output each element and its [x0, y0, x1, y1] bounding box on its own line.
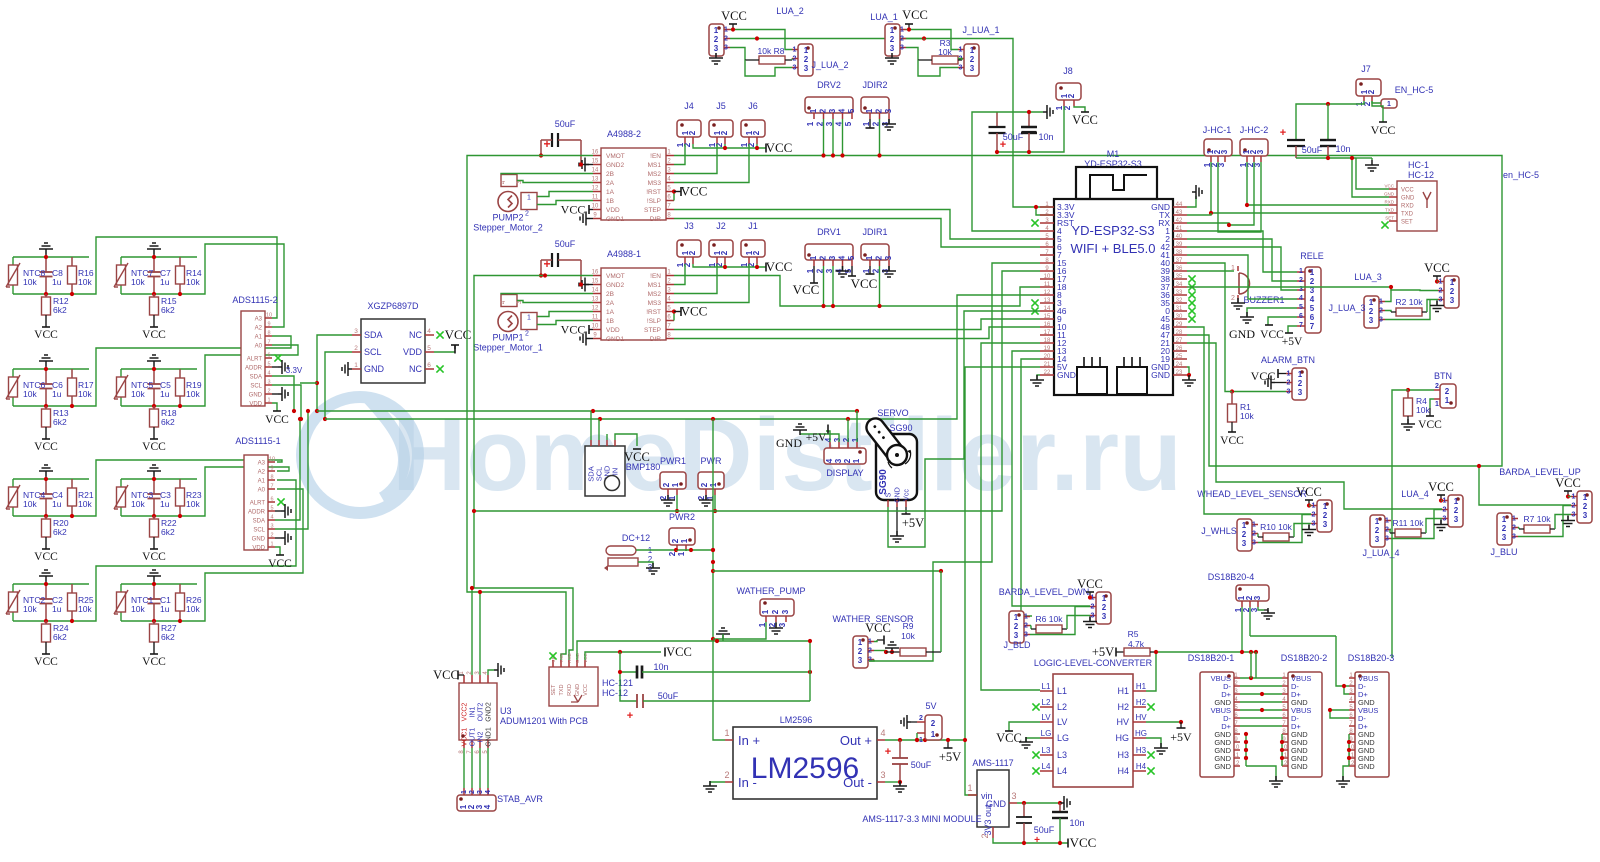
- svg-text:VDD: VDD: [606, 327, 620, 334]
- ground at GND1 of driver PUMP2: [580, 212, 590, 226]
- wire J_WHLS pin2 to R10: [1257, 533, 1259, 535]
- svg-text:6: 6: [267, 353, 270, 359]
- svg-text:!RST: !RST: [646, 189, 661, 196]
- svg-text:GND1: GND1: [486, 727, 493, 747]
- svg-text:3.3V: 3.3V: [286, 366, 303, 375]
- VCC below NTC3: [153, 537, 155, 549]
- svg-text:J_BLD: J_BLD: [1003, 640, 1031, 650]
- svg-text:BARDA_LEVEL_DWN: BARDA_LEVEL_DWN: [999, 587, 1090, 597]
- svg-text:15: 15: [1044, 314, 1051, 320]
- svg-text:J-HC-1: J-HC-1: [1203, 125, 1232, 135]
- ground at LUA_3: [1430, 301, 1444, 312]
- wire NTC4 to ADS1115-1 A3: [89, 460, 282, 516]
- svg-text:VDD: VDD: [403, 347, 423, 357]
- svg-text:1: 1: [267, 398, 270, 404]
- wire A4988-1 STEP to ESP32: [674, 319, 1040, 330]
- ESP32 bottom connector A: [1077, 367, 1107, 394]
- svg-text:50uF: 50uF: [555, 239, 576, 249]
- wire A4988-2 EN long rail: [674, 156, 1502, 467]
- svg-text:VCC: VCC: [34, 329, 58, 341]
- wire VMOT rail A4988-2 to HC-121 TXD: [467, 156, 593, 661]
- svg-text:RELE: RELE: [1300, 251, 1324, 261]
- ground WATHER_PUMP: [775, 622, 777, 628]
- wire R9 pullup riser: [940, 571, 942, 652]
- svg-text:VCC: VCC: [142, 441, 166, 453]
- svg-text:10k R8: 10k R8: [758, 46, 785, 56]
- svg-text:1: 1: [1385, 518, 1389, 525]
- svg-text:1: 1: [677, 551, 686, 556]
- svg-text:2: 2: [1367, 89, 1376, 94]
- ground at In-: [710, 782, 725, 786]
- svg-text:4: 4: [825, 458, 834, 463]
- connector of PUMP2: [521, 193, 537, 210]
- svg-text:1: 1: [919, 737, 923, 744]
- svg-text:GND2: GND2: [606, 162, 624, 169]
- pin H2 of LLC: [1133, 706, 1146, 708]
- svg-text:3: 3: [828, 108, 837, 113]
- svg-text:1: 1: [724, 728, 729, 738]
- svg-text:ALRT: ALRT: [247, 357, 263, 363]
- svg-text:3: 3: [1011, 791, 1016, 801]
- wire XGZP SCL to I2C bus: [325, 352, 352, 419]
- wire DS3 pin3: [1344, 686, 1349, 694]
- svg-text:2: 2: [1435, 383, 1439, 390]
- pin 4 SDA of ADS1115-1: [268, 519, 275, 521]
- wire NTC8 to ADS1115-2 A3: [89, 237, 277, 318]
- pin 10 17 of M1: [1040, 278, 1054, 280]
- svg-text:2: 2: [890, 35, 895, 44]
- svg-text:2: 2: [1102, 603, 1107, 612]
- pin 7 A0 of ADS1115-2: [265, 344, 272, 346]
- no-connect RST: [1031, 219, 1038, 226]
- svg-text:28: 28: [1176, 330, 1183, 336]
- resistor R14: [179, 257, 181, 266]
- wire caps bottom rail: [1296, 157, 1356, 159]
- svg-text:In -: In -: [738, 775, 757, 790]
- svg-text:HV: HV: [1135, 713, 1147, 722]
- wire J6 pin1 to MS3 A4988-2: [674, 144, 749, 183]
- svg-text:RXD: RXD: [567, 684, 573, 696]
- svg-text:SERVO: SERVO: [877, 408, 908, 418]
- no-connect pin 13: [1031, 299, 1038, 306]
- wire WHEAD feed: [1187, 327, 1311, 514]
- pin 4 NC of XGZP6897D: [425, 334, 434, 336]
- wire DQ bus upper: [1250, 635, 1336, 637]
- wire DS18B20-4 pin2 down: [1249, 607, 1251, 636]
- svg-text:3: 3: [1024, 632, 1028, 639]
- pin 16 10 of M1: [1040, 326, 1054, 328]
- pin 8 DIR of A4988-1: [666, 338, 674, 340]
- pin 1 !EN of A4988-1: [666, 275, 674, 277]
- svg-text:1: 1: [1439, 279, 1443, 286]
- connector STAB_AVR: [457, 795, 496, 811]
- svg-text:10n: 10n: [1335, 144, 1350, 154]
- wire XGZP SDA to I2C bus: [317, 335, 352, 411]
- svg-text:3: 3: [714, 44, 719, 53]
- wire DISPLAY pin4 to +5V: [826, 431, 830, 442]
- svg-text:1: 1: [1252, 522, 1256, 529]
- svg-text:NC: NC: [409, 364, 422, 374]
- svg-text:2: 2: [1014, 622, 1019, 631]
- svg-text:2: 2: [1454, 506, 1459, 515]
- wire I2C SCL bus: [325, 295, 1040, 419]
- pin 3 GND of AMS-1117: [1009, 802, 1017, 804]
- pin 6 6 of M1: [1040, 246, 1054, 248]
- pin TXD of HC-12: [1389, 212, 1397, 214]
- connector of PUMP1: [521, 313, 537, 330]
- pin 12 1A of A4988-2: [593, 191, 601, 193]
- svg-text:39: 39: [1176, 242, 1183, 248]
- svg-text:2: 2: [1385, 527, 1389, 534]
- svg-text:4: 4: [1310, 295, 1315, 304]
- svg-text:GND: GND: [1291, 762, 1308, 771]
- wire H1 to R5 node: [1146, 652, 1156, 691]
- capacitor 50uF HC area: [620, 672, 637, 701]
- svg-text:A0: A0: [255, 344, 263, 350]
- svg-text:L3: L3: [1042, 746, 1051, 755]
- svg-text:S: S: [886, 492, 893, 497]
- ground ESP32 right GND: [1187, 367, 1189, 380]
- svg-text:MS2: MS2: [648, 171, 662, 178]
- wire servo Vcc to +5V: [905, 507, 907, 514]
- svg-text:LV: LV: [1041, 713, 1051, 722]
- pin 3 SDA of XGZP6897D: [352, 334, 361, 336]
- wires DS18B20-1 to DS18B20-2 bus: [1240, 677, 1282, 679]
- svg-text:1: 1: [809, 255, 818, 260]
- svg-text:VCC: VCC: [1384, 184, 1394, 189]
- pin 2 In- of LM2596: [725, 781, 733, 783]
- ground above NTC7: [147, 243, 161, 254]
- svg-text:25: 25: [1176, 354, 1183, 360]
- resistor R19: [179, 369, 181, 378]
- svg-text:1: 1: [1445, 396, 1450, 405]
- svg-text:3: 3: [1369, 316, 1374, 325]
- ground DS18B20-4: [1258, 607, 1264, 610]
- svg-text:2: 2: [1024, 623, 1028, 630]
- svg-text:3: 3: [1583, 511, 1588, 520]
- svg-text:3: 3: [900, 45, 904, 52]
- pin 9 A2 of ADS1115-2: [265, 326, 272, 328]
- svg-text:2: 2: [868, 648, 872, 655]
- svg-text:DS18B20-1: DS18B20-1: [1188, 653, 1235, 663]
- pin L2 of LLC: [1040, 706, 1053, 708]
- wires DRV2 pins to EN rail: [823, 119, 825, 156]
- svg-text:32: 32: [1176, 298, 1183, 304]
- pin 6 ALRT of ADS1115-1: [268, 501, 275, 503]
- pin 9 GND1 of A4988-2: [593, 218, 601, 220]
- pin 7 A0 of ADS1115-1: [268, 488, 275, 490]
- ground at WHEAD_LEVEL_SENSOR: [1302, 525, 1316, 536]
- pin 24 GND of M1: [1173, 366, 1187, 368]
- svg-text:1: 1: [959, 47, 963, 54]
- svg-text:VCC: VCC: [561, 203, 586, 217]
- svg-text:14: 14: [592, 168, 599, 174]
- pin RXD of HC-12: [1389, 204, 1397, 206]
- no-connect ALRT ADS1115-2: [274, 354, 281, 361]
- svg-text:3: 3: [1220, 149, 1229, 154]
- svg-text:VCC: VCC: [142, 551, 166, 563]
- svg-text:2: 2: [793, 56, 797, 63]
- resistor R3: [932, 56, 958, 64]
- svg-text:3: 3: [1379, 317, 1383, 324]
- wire RELE pin3: [1187, 247, 1297, 290]
- wire cap bottom rail to J8 pin1: [997, 106, 1064, 152]
- svg-text:GND: GND: [1151, 370, 1170, 380]
- svg-text:TXD: TXD: [1401, 212, 1414, 218]
- wire VCC rail J3 J2 J1: [693, 264, 766, 267]
- ground under LUA_2: [709, 53, 723, 64]
- connector J_BLD: [1009, 611, 1024, 643]
- svg-text:VCC: VCC: [1072, 113, 1098, 127]
- pin 6 NC of XGZP6897D: [425, 368, 434, 370]
- ground above NTC4: [39, 465, 53, 476]
- svg-text:10: 10: [266, 313, 272, 319]
- ground at 5V pin2: [901, 715, 911, 729]
- svg-text:3: 3: [1375, 535, 1380, 544]
- svg-text:VCC: VCC: [1555, 476, 1581, 490]
- wire J_BLD pin3 row: [1030, 607, 1090, 635]
- ground ADDR ADS1115-1: [275, 510, 281, 512]
- pin 40 2 of M1: [1173, 238, 1187, 240]
- svg-text:HG: HG: [1116, 733, 1130, 743]
- svg-text:+: +: [543, 257, 550, 271]
- svg-text:2: 2: [1067, 93, 1076, 98]
- wire J_BLU pin2 to R7: [1518, 527, 1519, 529]
- svg-text:L2: L2: [1042, 698, 1051, 707]
- svg-text:R6 10k: R6 10k: [1036, 614, 1064, 624]
- svg-text:LUA_3: LUA_3: [1354, 272, 1382, 282]
- wire BMP180 VIN to VCC: [615, 434, 637, 446]
- svg-text:LUA_1: LUA_1: [870, 12, 898, 22]
- wire J_LUA_3 pin1 feed: [1385, 287, 1391, 302]
- resistor R26: [179, 584, 181, 593]
- pin 25 19 of M1: [1173, 358, 1187, 360]
- connector DISPLAY: [824, 448, 866, 464]
- svg-text:1: 1: [1242, 521, 1247, 530]
- svg-text:2: 2: [270, 533, 273, 539]
- svg-text:LV: LV: [1057, 717, 1067, 727]
- wire HC-12 VCC: [1356, 158, 1389, 189]
- svg-text:H3: H3: [1117, 750, 1129, 760]
- svg-text:2: 2: [1298, 379, 1303, 388]
- svg-text:H2: H2: [1117, 702, 1129, 712]
- resistor R1: [1231, 392, 1233, 405]
- wire cap top rail to ground: [997, 111, 1043, 113]
- svg-text:1: 1: [724, 27, 728, 34]
- svg-text:H2: H2: [1136, 698, 1147, 707]
- svg-text:J3: J3: [684, 221, 694, 231]
- svg-text:2: 2: [1443, 507, 1447, 514]
- svg-text:VCC: VCC: [1428, 480, 1454, 494]
- svg-text:1u: 1u: [160, 604, 170, 614]
- wire J_LUA_4 pin2 to R11: [1390, 529, 1391, 531]
- svg-text:4: 4: [427, 328, 431, 335]
- svg-text:1: 1: [809, 108, 818, 113]
- svg-text:2: 2: [1502, 524, 1507, 533]
- pin SET of HC-12: [1389, 220, 1397, 222]
- svg-text:3: 3: [858, 656, 863, 665]
- svg-text:MS1: MS1: [648, 162, 662, 169]
- svg-text:VCC: VCC: [996, 731, 1022, 745]
- svg-text:43: 43: [1176, 210, 1183, 216]
- svg-text:J5: J5: [716, 101, 726, 111]
- wire J1 pin1 to MS3 A4988-1: [674, 264, 749, 303]
- svg-text:10k: 10k: [186, 277, 200, 287]
- svg-text:10: 10: [1233, 745, 1240, 751]
- thermistor NTC6: [9, 377, 18, 397]
- svg-text:A0: A0: [258, 488, 266, 494]
- stepper coil of PUMP1: [501, 295, 517, 307]
- pin 1 3.3V of M1: [1040, 206, 1054, 208]
- svg-text:1: 1: [1512, 516, 1516, 523]
- svg-text:10k: 10k: [78, 499, 92, 509]
- wire J4 pin1 to MS1 A4988-2: [674, 144, 685, 165]
- svg-text:1: 1: [851, 437, 860, 442]
- wire DQ drop to row1: [1250, 652, 1252, 678]
- pin L3 of LLC: [1040, 754, 1053, 756]
- wire U3 pin2 riser: [471, 588, 473, 675]
- pin 3 Out- of LM2596: [877, 781, 885, 783]
- svg-text:J8: J8: [1063, 66, 1073, 76]
- pin 2 IN1 of U3: [471, 675, 473, 683]
- svg-text:STAB_AVR: STAB_AVR: [497, 794, 543, 804]
- pin 8 A1 of ADS1115-2: [265, 335, 272, 337]
- svg-text:5: 5: [270, 506, 273, 512]
- pin 4 MS3 of A4988-1: [666, 302, 674, 304]
- svg-text:1: 1: [1379, 299, 1383, 306]
- svg-text:!EN: !EN: [650, 273, 661, 280]
- svg-text:1: 1: [1369, 298, 1374, 307]
- svg-text:A3: A3: [258, 461, 266, 467]
- svg-text:6k2: 6k2: [53, 527, 67, 537]
- pin 5 VDD of XGZP6897D: [425, 351, 434, 353]
- no-connect SET HC-121: [549, 652, 556, 659]
- wire HV to +5V: [1146, 721, 1181, 723]
- pin 4 MS3 of A4988-2: [666, 182, 674, 184]
- svg-text:50uF: 50uF: [1302, 145, 1323, 155]
- svg-text:29: 29: [1176, 322, 1183, 328]
- wire 5V rail: [474, 510, 820, 512]
- pin 27 21 of M1: [1173, 342, 1187, 344]
- no-connect H4: [1147, 767, 1154, 774]
- ground at LUA_4: [1434, 520, 1448, 531]
- svg-text:2: 2: [1312, 512, 1316, 519]
- svg-text:3: 3: [1323, 520, 1328, 529]
- svg-text:2: 2: [875, 255, 884, 260]
- svg-text:DRV2: DRV2: [817, 80, 841, 90]
- svg-text:2A: 2A: [606, 300, 615, 307]
- svg-text:GND1: GND1: [606, 336, 624, 343]
- svg-text:+5V: +5V: [806, 432, 827, 444]
- svg-text:10k: 10k: [131, 604, 145, 614]
- pin 39 42 of M1: [1173, 246, 1187, 248]
- svg-text:2: 2: [1445, 387, 1450, 396]
- resistor R16: [71, 257, 73, 266]
- svg-text:1: 1: [806, 121, 815, 126]
- svg-text:3: 3: [270, 524, 273, 530]
- module HC-121 HC-12 bottom: [549, 667, 598, 706]
- svg-text:GND: GND: [1057, 370, 1076, 380]
- pin LG of LLC: [1040, 737, 1053, 739]
- svg-text:6: 6: [270, 497, 273, 503]
- wire BMP180 SCL to bus: [598, 419, 600, 440]
- svg-text:1: 1: [1583, 493, 1588, 502]
- svg-text:RXD: RXD: [1384, 200, 1394, 205]
- thermistor block NTC5: [121, 368, 197, 370]
- pin VCC of HC-12: [1389, 188, 1397, 190]
- svg-text:10k: 10k: [23, 277, 37, 287]
- svg-text:6k2: 6k2: [161, 417, 175, 427]
- svg-text:HomeDistiller.ru: HomeDistiller.ru: [392, 397, 1182, 512]
- svg-text:11: 11: [592, 195, 599, 201]
- svg-text:VCC: VCC: [583, 684, 589, 696]
- svg-text:J_BLU: J_BLU: [1490, 547, 1517, 557]
- svg-text:GND: GND: [249, 393, 263, 399]
- svg-text:RXD: RXD: [567, 653, 572, 663]
- svg-text:2: 2: [771, 609, 780, 614]
- svg-text:L1: L1: [1057, 686, 1067, 696]
- svg-text:ADDR: ADDR: [245, 366, 263, 372]
- VCC below DRV1 pin1: [813, 266, 815, 283]
- svg-text:L4: L4: [1042, 762, 1051, 771]
- svg-text:VDD: VDD: [606, 207, 620, 214]
- svg-text:VCC: VCC: [265, 414, 289, 426]
- wire HC-12 RXD to J-HC-2: [1247, 162, 1389, 205]
- resistor R4: [1407, 390, 1409, 398]
- svg-text:4: 4: [270, 515, 273, 521]
- ground above NTC5: [147, 355, 161, 366]
- ground buzzer: [1237, 295, 1239, 300]
- wire 2B PUMP2: [501, 174, 593, 175]
- pin 14 46 of M1: [1040, 310, 1054, 312]
- svg-text:DS18B20-4: DS18B20-4: [1208, 572, 1255, 582]
- svg-text:AMS-1117-3.3 MINI MODULE: AMS-1117-3.3 MINI MODULE: [862, 814, 981, 824]
- wire NTC2 to ADS1115-1 A1: [89, 480, 296, 621]
- wire DQ riser between DS connectors: [1255, 652, 1257, 678]
- svg-text:EN_HC-5: EN_HC-5: [1395, 85, 1434, 95]
- ground above NTC2: [39, 570, 53, 581]
- ground at U3 pin4: [488, 670, 494, 675]
- svg-text:3: 3: [1512, 534, 1516, 541]
- svg-text:VCC: VCC: [1418, 419, 1442, 431]
- svg-text:3: 3: [970, 64, 975, 73]
- pin 7 STEP of A4988-2: [666, 209, 674, 211]
- svg-text:33: 33: [1176, 290, 1183, 296]
- svg-text:1: 1: [1287, 371, 1291, 378]
- pin 31 0 of M1: [1173, 310, 1187, 312]
- wire J_BLU pin3 row: [1518, 506, 1571, 537]
- wire trunk to LM2596 In+: [713, 419, 725, 740]
- wire 1B PUMP1: [537, 321, 593, 325]
- svg-text:18: 18: [1044, 338, 1051, 344]
- pin 30 45 of M1: [1173, 318, 1187, 320]
- svg-text:H4: H4: [1136, 762, 1147, 771]
- svg-text:3: 3: [833, 437, 842, 442]
- pin 8 15 of M1: [1040, 262, 1054, 264]
- svg-text:DISPLAY: DISPLAY: [826, 468, 863, 478]
- svg-text:1: 1: [804, 46, 809, 55]
- svg-text:DS18B20-3: DS18B20-3: [1348, 653, 1395, 663]
- ground at BARDA_LEVEL_UP: [1561, 516, 1575, 527]
- svg-text:A4988-1: A4988-1: [607, 249, 641, 259]
- svg-text:2: 2: [1242, 530, 1247, 539]
- svg-text:L1: L1: [1042, 682, 1051, 691]
- svg-text:DIR: DIR: [650, 216, 662, 223]
- svg-text:A3: A3: [255, 317, 263, 323]
- pin 42 RX of M1: [1173, 222, 1187, 224]
- wire J8 pin2 to VCC: [1074, 106, 1085, 112]
- wire VCC node to pin1: [1309, 505, 1311, 507]
